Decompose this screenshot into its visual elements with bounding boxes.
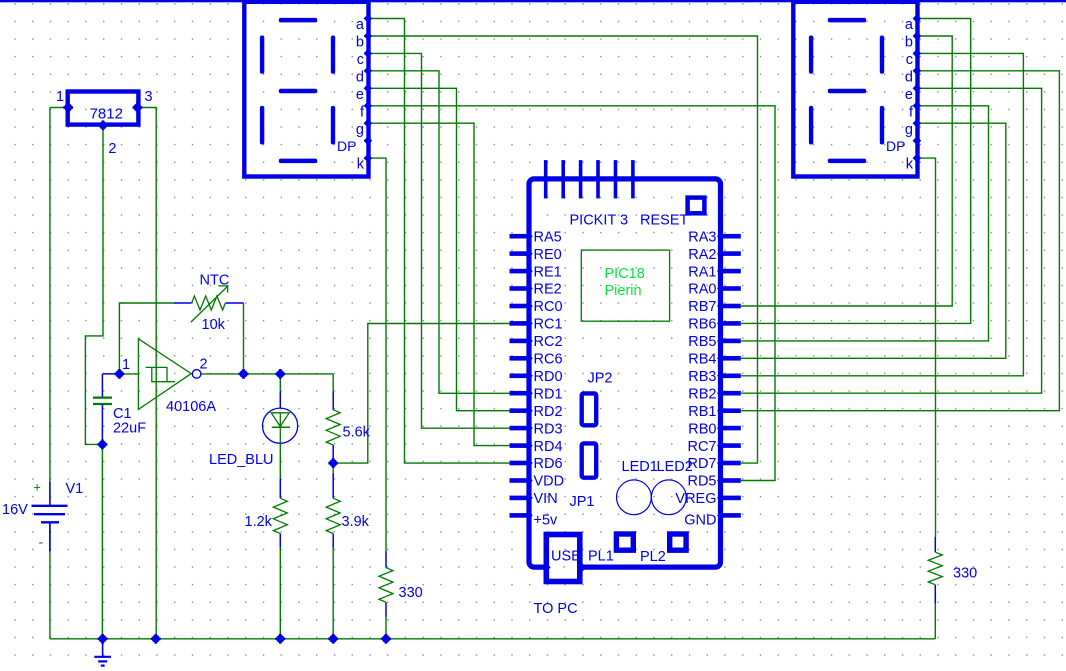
svg-text:330: 330 xyxy=(399,585,423,601)
resistor R2 1.2k body xyxy=(273,498,287,533)
display DIS2 segment a xyxy=(828,18,866,23)
svg-text:JP2: JP2 xyxy=(588,370,613,386)
wire op-amp output bus xyxy=(201,373,333,375)
wire display1 k down to resistor 330 xyxy=(370,158,386,551)
label pin 3 xyxy=(145,89,153,105)
PIC pin RB6 xyxy=(717,319,741,328)
label JP1 xyxy=(570,494,595,510)
svg-text:k: k xyxy=(906,157,914,173)
PIC pin RD2 xyxy=(510,406,533,415)
PIC pin RD7 xyxy=(717,459,741,468)
capacitor C1 plates xyxy=(93,398,112,404)
label RD4 xyxy=(534,439,563,455)
label RB7 xyxy=(688,299,716,315)
wire display2 seg b to RB7 xyxy=(741,36,952,306)
label RB2 xyxy=(688,386,716,402)
svg-text:RD6: RD6 xyxy=(534,456,563,472)
svg-text:LED1: LED1 xyxy=(622,459,658,475)
svg-text:16V: 16V xyxy=(2,502,28,518)
label RD3 xyxy=(534,421,563,437)
PIC pin RA0 xyxy=(717,284,741,293)
svg-text:40106A: 40106A xyxy=(166,399,216,415)
node C1 bottom junction xyxy=(98,440,108,450)
svg-text:c: c xyxy=(357,52,364,68)
display DIS2 pin k xyxy=(913,154,922,163)
7-segment display DIS2 box xyxy=(793,2,917,177)
resistor R1 5.6k body xyxy=(326,410,340,445)
svg-text:USB: USB xyxy=(551,549,581,565)
display DIS2 segment e xyxy=(809,106,813,145)
label DIS1 c xyxy=(357,52,364,68)
label USB xyxy=(551,549,581,565)
label DIS2 g xyxy=(905,122,913,138)
label DIS1 a xyxy=(356,17,365,33)
label RE2 xyxy=(534,282,562,298)
wire divider junction to RC1 xyxy=(333,324,511,464)
svg-text:PL1: PL1 xyxy=(588,548,614,564)
label battery plus xyxy=(34,481,41,495)
wire display2 seg g to RB4 xyxy=(741,123,1006,358)
label DIS1 e xyxy=(356,87,364,103)
PIC pin RD6 xyxy=(510,459,533,468)
jumper JP2 block 1 xyxy=(582,393,597,425)
label RB0 xyxy=(688,421,716,437)
wire display1 seg e to RD2 xyxy=(370,88,511,410)
label C1 xyxy=(113,406,132,422)
node pin1 junction xyxy=(115,369,125,379)
display DIS1 pin a xyxy=(364,14,373,23)
PIC pin RE1 xyxy=(510,267,533,276)
label 40106A xyxy=(166,399,216,415)
label PL1 xyxy=(588,548,614,564)
PIC pin RE2 xyxy=(510,284,533,293)
label V1 xyxy=(66,481,84,497)
display DIS1 segment f xyxy=(260,36,264,74)
junction ground node xyxy=(98,634,108,644)
LED D1 circle xyxy=(263,408,298,443)
svg-text:-: - xyxy=(39,534,44,550)
svg-text:RE2: RE2 xyxy=(534,282,562,298)
battery V1 lead top xyxy=(49,482,51,505)
display DIS2 segment b xyxy=(880,36,884,74)
LED2 circle xyxy=(651,480,686,515)
svg-text:RA3: RA3 xyxy=(688,229,716,245)
display DIS2 segment f xyxy=(809,36,813,74)
svg-text:RB3: RB3 xyxy=(688,369,716,385)
PIC pin RA3 xyxy=(717,232,741,241)
svg-text:PIC18: PIC18 xyxy=(605,266,645,282)
svg-text:DP: DP xyxy=(337,138,356,154)
PIC pin RB2 xyxy=(717,389,741,398)
resistor R5 330 pins xyxy=(934,537,936,604)
USB junction right xyxy=(578,563,587,572)
label 1.2k xyxy=(245,514,273,530)
wire resistor 330 left bottom to rail xyxy=(385,617,387,639)
PIC pin RB5 xyxy=(717,337,741,346)
label RA3 xyxy=(688,229,716,245)
wire LED anode branch xyxy=(279,374,281,391)
USB connector area mask xyxy=(545,562,581,572)
PIC pin VDD xyxy=(510,476,533,485)
display DIS2 pin d xyxy=(913,67,922,76)
label RA5 xyxy=(534,229,562,245)
label DIS2 f xyxy=(909,104,914,120)
svg-text:RD3: RD3 xyxy=(534,421,563,437)
PIC pin RD5 xyxy=(717,476,741,485)
svg-text:d: d xyxy=(905,69,913,85)
resistor R5 330 body xyxy=(928,552,942,585)
svg-text:1: 1 xyxy=(122,357,130,373)
svg-text:RA5: RA5 xyxy=(534,229,562,245)
resistor R4 330 body xyxy=(379,568,393,603)
node LED junction xyxy=(275,369,285,379)
label RD0 xyxy=(534,369,563,385)
wire node pin1 to op-amp input xyxy=(119,373,138,375)
PIC pin RC7 xyxy=(717,441,741,450)
battery V1 plate long xyxy=(32,505,68,507)
thermistor NTC pins xyxy=(174,302,244,304)
svg-text:LED_BLU: LED_BLU xyxy=(209,452,273,468)
label pin 1 xyxy=(56,89,64,105)
label PIC18 xyxy=(605,266,645,282)
PIC pin RA2 xyxy=(717,249,741,258)
svg-text:RD2: RD2 xyxy=(534,404,563,420)
LED D1 lead in xyxy=(279,391,281,408)
ground xyxy=(94,639,111,666)
label RD5 xyxy=(687,474,716,490)
label DIS2 d xyxy=(905,69,913,85)
label DIS2 c xyxy=(906,52,913,68)
wire 7812 pin2 down with jog xyxy=(85,127,103,445)
label PICKIT 3 xyxy=(570,213,629,229)
wire display1 seg c to RD3 xyxy=(370,53,511,428)
label DIS1 g xyxy=(356,122,364,138)
LED D1 triangle xyxy=(271,413,290,427)
label 22uF xyxy=(113,421,146,437)
display DIS2 pin a xyxy=(913,14,922,23)
svg-text:NTC: NTC xyxy=(200,272,230,288)
wire C1 bottom to bottom rail xyxy=(101,444,103,638)
resistor R2 1.2k pins xyxy=(279,479,281,548)
label DIS1 d xyxy=(356,69,364,85)
pad PL2 xyxy=(670,534,686,550)
label RC1 xyxy=(534,317,563,333)
PIC pin RB1 xyxy=(717,406,741,415)
label RD2 xyxy=(534,404,563,420)
USB connector box xyxy=(546,535,580,582)
battery V1 lead bottom xyxy=(49,522,51,551)
svg-text:RC6: RC6 xyxy=(534,352,563,368)
svg-text:RD5: RD5 xyxy=(687,474,716,490)
label 330 right xyxy=(953,566,977,582)
label DIS2 DP xyxy=(886,138,905,154)
wire display1 seg f to RD5 via right xyxy=(370,106,775,481)
label JP2 xyxy=(588,370,613,386)
display DIS1 segment e xyxy=(260,106,264,145)
label RB1 xyxy=(688,404,716,420)
label RD7 xyxy=(687,456,716,472)
label RESET xyxy=(640,213,688,229)
PIC pin RD4 xyxy=(510,441,533,450)
svg-text:JP1: JP1 xyxy=(570,494,595,510)
svg-text:3.9k: 3.9k xyxy=(342,514,370,530)
node divider junction xyxy=(328,458,338,468)
svg-text:e: e xyxy=(905,87,913,103)
junction 330 bottom xyxy=(381,634,391,644)
label LED_BLU xyxy=(209,452,273,468)
PIC pin RB3 xyxy=(717,372,741,381)
svg-text:PICKIT 3: PICKIT 3 xyxy=(570,213,629,229)
svg-text:RC0: RC0 xyxy=(534,299,563,315)
svg-text:a: a xyxy=(905,17,914,33)
display DIS1 segment b xyxy=(331,36,335,74)
label DIS1 b xyxy=(356,35,364,51)
display DIS1 pin DP xyxy=(364,136,373,145)
label TO PC xyxy=(534,601,578,617)
svg-text:RB1: RB1 xyxy=(688,404,716,420)
PIC18 inner box xyxy=(581,250,669,321)
svg-text:RB7: RB7 xyxy=(688,299,716,315)
PIC pin GND xyxy=(717,511,741,520)
svg-text:g: g xyxy=(905,122,913,138)
svg-text:RB5: RB5 xyxy=(688,334,716,350)
label RB5 xyxy=(688,334,716,350)
label RA0 xyxy=(688,282,716,298)
display DIS1 pin f xyxy=(364,102,373,111)
label LED2 xyxy=(657,459,693,475)
label 16V xyxy=(2,502,28,518)
junction 12V rail bottom xyxy=(151,634,161,644)
svg-text:1: 1 xyxy=(56,89,64,105)
display DIS2 segment d xyxy=(828,159,866,164)
PIC pin RB0 xyxy=(717,424,741,433)
wire junction to 3.9k xyxy=(332,463,334,473)
svg-text:b: b xyxy=(905,35,913,51)
PIC pin +5v xyxy=(510,511,533,520)
7812 pin 3 xyxy=(133,103,143,113)
schematic frame top border xyxy=(0,0,1066,2)
pad PL1 xyxy=(616,534,633,550)
svg-text:RC1: RC1 xyxy=(534,317,563,333)
svg-text:RB2: RB2 xyxy=(688,386,716,402)
svg-text:DP: DP xyxy=(886,138,905,154)
svg-text:7812: 7812 xyxy=(90,105,123,122)
junction 3.9k bottom xyxy=(328,634,338,644)
battery V1 plate short xyxy=(41,521,59,523)
wire node pin1 up to NTC left xyxy=(119,303,174,374)
display DIS1 pin g xyxy=(364,119,373,128)
label RB6 xyxy=(688,317,716,333)
PIC pin RA5 xyxy=(510,232,533,241)
capacitor C1 lead bottom xyxy=(101,404,103,444)
display DIS1 pin k xyxy=(364,154,373,163)
wire display1 seg d to RD1 xyxy=(370,71,511,394)
PIC pin RD1 xyxy=(510,389,533,398)
svg-text:b: b xyxy=(356,35,364,51)
label DIS1 f xyxy=(360,104,365,120)
label DIS2 e xyxy=(905,87,913,103)
label RB3 xyxy=(688,369,716,385)
label op-amp pin 2 xyxy=(200,356,208,372)
svg-text:RD4: RD4 xyxy=(534,439,563,455)
svg-text:GND: GND xyxy=(684,513,716,529)
display DIS2 pin g xyxy=(913,119,922,128)
svg-text:22uF: 22uF xyxy=(113,421,146,437)
wire display1 seg a to RD6 xyxy=(370,19,511,464)
label RC2 xyxy=(534,334,563,350)
label RE1 xyxy=(534,264,562,280)
wire battery minus to bottom rail xyxy=(49,522,51,639)
label LED1 xyxy=(622,459,658,475)
label 330 left xyxy=(399,585,423,601)
label VIN xyxy=(534,491,558,507)
PICKIT header pins xyxy=(544,160,635,198)
wire display2 seg c to RB3 xyxy=(741,53,1023,375)
label Pierin xyxy=(605,283,642,299)
op-amp U3 40106A triangle xyxy=(138,339,191,410)
svg-text:RESET: RESET xyxy=(640,213,688,229)
label PL2 xyxy=(640,549,666,565)
label 7812 xyxy=(90,105,123,122)
svg-text:PL2: PL2 xyxy=(640,549,666,565)
display DIS2 pin c xyxy=(913,49,922,58)
svg-text:VDD: VDD xyxy=(534,474,565,490)
svg-text:VIN: VIN xyxy=(534,491,558,507)
7812 pin 2 xyxy=(98,120,108,130)
label DIS2 b xyxy=(905,35,913,51)
svg-text:LED2: LED2 xyxy=(657,459,693,475)
op-amp inverter bubble xyxy=(192,370,201,379)
svg-text:3: 3 xyxy=(145,89,153,105)
display DIS2 segment c xyxy=(880,106,884,145)
label DIS2 k xyxy=(906,157,914,173)
svg-text:TO PC: TO PC xyxy=(534,601,578,617)
label RA2 xyxy=(688,247,716,263)
PIC pin RC0 xyxy=(510,302,533,311)
wire display2 seg d to RB1 xyxy=(741,71,1059,411)
svg-text:VREG: VREG xyxy=(675,491,716,507)
svg-text:RA1: RA1 xyxy=(688,264,716,280)
svg-text:RB4: RB4 xyxy=(688,352,716,368)
svg-text:RE1: RE1 xyxy=(534,264,562,280)
svg-text:RD1: RD1 xyxy=(534,386,563,402)
wire display2 seg e to RB2 xyxy=(741,88,1042,393)
PIC pin RC1 xyxy=(510,319,533,328)
label RB4 xyxy=(688,352,716,368)
resistor R3 3.9k pins xyxy=(332,473,334,548)
PIC pin RB4 xyxy=(717,354,741,363)
7-segment display DIS1 box xyxy=(244,2,368,177)
display DIS2 pin DP xyxy=(913,136,922,145)
wire LED cathode to R 1.2k xyxy=(279,443,281,478)
svg-text:c: c xyxy=(906,52,913,68)
label RC7 xyxy=(687,439,716,455)
display DIS1 segment d xyxy=(279,159,317,164)
wire display2 seg a to RB6 xyxy=(741,19,971,324)
svg-text:V1: V1 xyxy=(66,481,84,497)
label DIS2 a xyxy=(905,17,914,33)
jumper JP2 block 2 xyxy=(582,443,597,477)
LED1 circle xyxy=(617,480,652,515)
label VDD xyxy=(534,474,565,490)
display DIS1 segment g xyxy=(279,89,317,94)
label RA1 xyxy=(688,264,716,280)
svg-text:RC2: RC2 xyxy=(534,334,563,350)
svg-text:g: g xyxy=(356,122,364,138)
wire R 1.2k bottom to rail xyxy=(279,548,281,639)
wire 5.6k top stub xyxy=(332,374,334,391)
display DIS2 segment g xyxy=(828,89,866,94)
svg-text:RB6: RB6 xyxy=(688,317,716,333)
thermistor NTC body xyxy=(192,296,226,310)
display DIS1 pin d xyxy=(364,67,373,76)
svg-text:10k: 10k xyxy=(202,317,226,333)
PIC pin RC6 xyxy=(510,354,533,363)
label DIS1 DP xyxy=(337,138,356,154)
svg-text:+: + xyxy=(34,481,41,495)
RESET button xyxy=(688,198,705,214)
display DIS1 pin b xyxy=(364,32,373,41)
PIC pin RC2 xyxy=(510,337,533,346)
wire display1 seg b to RD7 via right xyxy=(370,36,757,463)
wire resistor 330 right bottom to rail xyxy=(934,604,936,639)
PIC pin RD3 xyxy=(510,424,533,433)
svg-text:RA2: RA2 xyxy=(688,247,716,263)
wire 7812 pin1 to battery V1 xyxy=(50,108,68,482)
label RC0 xyxy=(534,299,563,315)
label NTC xyxy=(200,272,230,288)
svg-text:a: a xyxy=(356,17,365,33)
wire display1 seg g to RD4 xyxy=(370,123,511,445)
label 10k xyxy=(202,317,226,333)
label op-amp pin 1 xyxy=(122,357,130,373)
svg-text:RB0: RB0 xyxy=(688,421,716,437)
resistor R4 330 pins xyxy=(385,551,387,617)
capacitor C1 lead top xyxy=(102,374,119,397)
node output junction xyxy=(239,369,249,379)
thermistor NTC arrow xyxy=(191,286,228,322)
display DIS1 pin e xyxy=(364,84,373,93)
regulator U2 7812 box xyxy=(68,92,139,125)
svg-text:2: 2 xyxy=(108,141,116,157)
PIC pin VREG xyxy=(717,494,741,503)
label GND xyxy=(684,513,716,529)
label RD1 xyxy=(534,386,563,402)
svg-text:2: 2 xyxy=(200,356,208,372)
USB junction left xyxy=(542,563,551,572)
PIC pin RA1 xyxy=(717,267,741,276)
label RE0 xyxy=(534,247,562,263)
7812 pin 1 xyxy=(63,103,73,113)
wire 7812 pin3 rail down xyxy=(137,108,156,639)
resistor R1 5.6k pins xyxy=(332,391,334,463)
wire NTC right down to output node xyxy=(243,303,245,374)
svg-text:1.2k: 1.2k xyxy=(245,514,273,530)
resistor R3 3.9k body xyxy=(326,498,340,533)
wire R 3.9k bottom to rail xyxy=(332,548,334,639)
svg-text:RA0: RA0 xyxy=(688,282,716,298)
wire bottom ground rail xyxy=(50,638,935,640)
wire display2 k down to resistor 330 right xyxy=(919,158,935,537)
svg-text:330: 330 xyxy=(953,566,977,582)
PIC pin RD0 xyxy=(510,372,533,381)
display DIS1 segment c xyxy=(331,106,335,145)
svg-text:RD0: RD0 xyxy=(534,369,563,385)
display DIS2 pin b xyxy=(913,32,922,41)
svg-text:RE0: RE0 xyxy=(534,247,562,263)
label RD6 xyxy=(534,456,563,472)
svg-text:5.6k: 5.6k xyxy=(343,425,371,441)
